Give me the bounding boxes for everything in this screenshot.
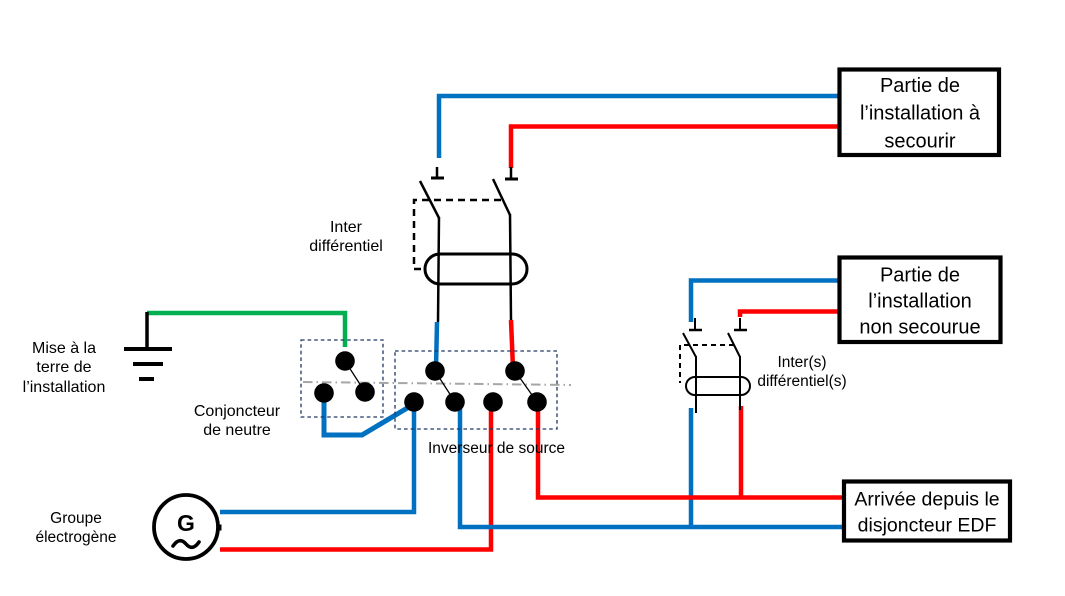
inverseur contact Ph gen [483,392,503,412]
wire N: blue inter differentiel output to inverseur top [436,322,437,369]
inverseur blade N [435,371,455,402]
inter(s) differentiel(s) right pole conductor [739,356,741,410]
inter differentiel (big) right pole terminal [505,167,518,179]
svg-text:Conjoncteur: Conjoncteur [194,403,281,420]
wire N top: blue from inter differentiel to box "a secourir" [439,96,840,158]
svg-text:Inter: Inter [330,219,363,236]
svg-text:Partie de: Partie de [880,75,960,97]
wire Ph: red inter differentiel output to inverseur top [511,320,513,369]
inverseur contact Ph top [505,361,525,381]
wire N: blue from box "non secourue" down to small differential [691,281,840,323]
inter(s) differentiel(s) right terminal [734,318,747,330]
inverseur contact Ph edf [527,392,547,412]
inter differentiel (big) right blade [493,179,510,215]
svg-text:l’installation: l’installation [23,379,106,396]
conjoncteur contact bottom-left [314,383,334,403]
inverseur contact N gen [404,392,424,412]
wire N: blue from generator up to inverseur [220,403,414,512]
svg-text:l’installation à: l’installation à [860,103,981,125]
wire N: blue from conjoncteur to inverseur node [324,393,414,435]
wire Ph: red from generator up to inverseur [220,403,491,550]
svg-text:G: G [177,510,195,536]
conjoncteur contact bottom-right [355,382,375,402]
inter(s) differentiel(s) linkage dashed [680,345,734,383]
wire Ph bus: red EDF arrival horizontal [538,403,844,498]
svg-text:Inter(s): Inter(s) [777,354,826,371]
linkage: gray dash-dot mechanical link [303,382,571,385]
box: Partie de l'installation non secourue [840,258,1001,343]
op: inter differentiel (big) left pole terminal [431,167,444,178]
inter differentiel (big) right pole conductor [510,214,511,320]
svg-text:de neutre: de neutre [203,422,271,439]
svg-text:disjoncteur EDF: disjoncteur EDF [858,515,997,537]
inter differentiel (big) left blade [420,181,439,218]
conjoncteur contact top [335,351,355,371]
svg-text:non secourue: non secourue [859,317,980,339]
inter(s) differentiel(s) toroid [686,377,750,395]
op: inter(s) differentiel(s) small left terminal [689,318,702,330]
svg-text:l’installation: l’installation [868,291,971,313]
inter differentiel (big) left pole conductor [438,217,439,322]
svg-text:terre de: terre de [36,359,91,376]
wire Ph top: red from inter differentiel to box "a secourir" [511,127,840,169]
wire PE: green earth wire from ground to conjoncteur [147,313,345,347]
svg-text:Mise à la: Mise à la [32,340,96,357]
wire Ph: red below small differential down to EDF phase bus [739,406,744,497]
svg-text:différentiel(s): différentiel(s) [757,373,846,390]
wire N: blue below small differential down to EDF neutral bus [689,408,694,529]
svg-text:secourir: secourir [884,131,955,153]
inverseur contact N top [425,361,445,381]
svg-text:Groupe: Groupe [50,510,102,527]
box dashed: conjoncteur de neutre [301,340,383,417]
inverseur contact N edf [445,392,465,412]
inter(s) differentiel(s) left blade [683,333,696,357]
box dashed: inverseur de source [395,351,557,429]
inter(s) differentiel(s) right blade [728,333,740,357]
box: Partie de l'installation a secourir [840,70,1000,156]
inverseur blade Ph [515,371,537,402]
inter(s) differentiel(s) left pole conductor [695,356,697,413]
box: Arrivee depuis le disjoncteur EDF [844,482,1010,541]
wire Ph: red from box "non secourue" to small differential [740,312,840,318]
conjoncteur blade [345,361,365,392]
inter differentiel (big) linkage dashed [414,200,501,269]
svg-text:différentiel: différentiel [309,238,383,255]
generator G~ [154,495,222,559]
svg-text:Arrivée depuis le: Arrivée depuis le [854,489,999,511]
svg-text:électrogène: électrogène [35,529,116,546]
ground symbol: mise a la terre [124,312,172,379]
wire N bus: blue EDF arrival horizontal [460,405,844,527]
svg-text:Inverseur de source: Inverseur de source [428,440,565,457]
inter differentiel (big) toroid [425,254,527,284]
svg-text:Partie de: Partie de [880,265,960,287]
